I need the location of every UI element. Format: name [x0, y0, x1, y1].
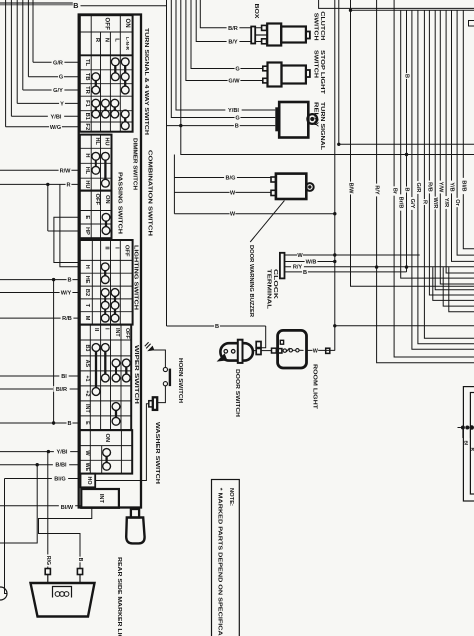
svg-text:B1: B1: [84, 113, 90, 121]
junction B/Bl: [36, 463, 39, 466]
wire G: [27, 0, 29, 77]
wire B right side: [406, 10, 408, 272]
wire Br: [394, 0, 474, 357]
wire vertical to y144 line: [338, 0, 340, 144]
label Br: [391, 186, 397, 195]
svg-text:E: E: [84, 215, 90, 219]
clutch switch barrel: [281, 27, 306, 43]
svg-text:Y/Bl: Y/Bl: [57, 450, 68, 456]
lighting switch contacts: [101, 263, 109, 271]
turn signal switch contacts F1 row: [92, 99, 100, 107]
turn signal relay mounting ear: [307, 114, 317, 124]
svg-text:B/Bl: B/Bl: [55, 463, 67, 469]
svg-text:R/W: R/W: [60, 168, 72, 174]
horn terminal cell HO: [81, 474, 96, 488]
wire B top horizontal: [81, 5, 167, 7]
svg-text:L: L: [113, 38, 119, 42]
svg-text:ON: ON: [124, 19, 130, 28]
clock terminal bar: [280, 253, 285, 279]
wire B feed vertical: [181, 0, 474, 155]
room light body: [278, 330, 307, 368]
label Y/B: [448, 181, 454, 194]
wire B from clock terminal: [285, 271, 407, 273]
svg-text:Bl/W: Bl/W: [61, 505, 74, 511]
svg-text:WIPER SWITCH: WIPER SWITCH: [133, 345, 139, 404]
wire R/W: [0, 169, 80, 171]
svg-text:B: B: [73, 1, 78, 10]
wire W/Y: [0, 292, 80, 294]
wire B/G to buzzer: [174, 177, 271, 179]
turn signal relay terminal bar: [275, 107, 279, 131]
svg-text:AS: AS: [84, 360, 90, 368]
door switch arrow: [217, 353, 228, 361]
svg-text:G/R: G/R: [415, 183, 421, 193]
door warning buzzer mounting ear: [306, 183, 314, 191]
svg-text:N: N: [103, 38, 109, 42]
rear side marker lamp terminal R/G: [45, 569, 50, 575]
turn signal switch contacts TB row: [92, 73, 100, 81]
svg-text:CLUTCH: CLUTCH: [319, 11, 325, 40]
rear side marker lamp housing: [31, 583, 95, 617]
stop light switch body: [268, 63, 282, 87]
svg-text:Y/Bl: Y/Bl: [51, 114, 62, 120]
svg-text:B: B: [303, 270, 307, 276]
wire Bl/R: [0, 388, 80, 390]
note box: [212, 480, 240, 636]
junction B net: [52, 278, 55, 281]
stop light switch terminals: [263, 66, 268, 71]
label Y/R: [443, 196, 449, 209]
svg-text:HL: HL: [94, 138, 100, 146]
wire R/G drop to side marker: [47, 452, 49, 569]
wire E to H loop: [54, 217, 80, 262]
junction Y/Bl: [47, 450, 50, 453]
svg-text:DOOR SWITCH: DOOR SWITCH: [234, 369, 240, 417]
wiper switch contacts: [92, 344, 100, 352]
wire G vertical to stop light switch: [191, 0, 263, 69]
svg-text:II: II: [104, 246, 110, 250]
svg-text:ON: ON: [104, 195, 110, 204]
svg-text:B3: B3: [84, 345, 90, 352]
wire Y/Bl to W: [0, 451, 80, 453]
svg-text:TERMINAL: TERMINAL: [266, 269, 272, 310]
junction R branch: [46, 183, 49, 186]
dimmer switch table grid: [80, 135, 112, 191]
label B right: [403, 187, 409, 193]
label R/G: [45, 554, 50, 566]
svg-text:B: B: [77, 558, 83, 562]
svg-text:W: W: [297, 253, 303, 259]
svg-text:G: G: [59, 75, 63, 81]
wire INT box to marker lamp B terminal: [39, 508, 92, 569]
wire W/G: [5, 0, 7, 127]
svg-text:R/B: R/B: [426, 182, 432, 192]
wire W net vertical: [334, 0, 336, 351]
svg-text:Y/R: Y/R: [443, 198, 449, 207]
wire G/W vertical to stop light switch: [186, 0, 263, 81]
door switch plunger: [238, 340, 243, 363]
svg-text:RELAY: RELAY: [312, 102, 318, 127]
stop light switch barrel: [282, 66, 306, 84]
svg-text:M: M: [84, 316, 90, 321]
right edge lamp box inner: [470, 393, 474, 495]
svg-text:DOOR WARNING BUZZER: DOOR WARNING BUZZER: [248, 245, 254, 318]
svg-text:Bl/G: Bl/G: [54, 477, 66, 483]
wire Bl/G: [5, 478, 81, 480]
svg-text:ON: ON: [104, 434, 110, 443]
svg-text:TB: TB: [84, 73, 90, 81]
svg-text:INT: INT: [84, 404, 90, 413]
svg-text:SWITCH: SWITCH: [312, 50, 318, 78]
svg-text:WE: WE: [84, 463, 90, 472]
svg-text:ROOM LIGHT: ROOM LIGHT: [311, 364, 317, 410]
svg-text:L-N-R: L-N-R: [124, 37, 130, 51]
svg-text:R: R: [66, 182, 70, 188]
label R right: [421, 199, 427, 205]
svg-text:Y/W: Y/W: [437, 182, 443, 193]
label B/Y: [227, 38, 240, 44]
lighting switch contact links: [104, 271, 106, 276]
lighting switch table grid: [80, 240, 133, 325]
label Br/B: [398, 194, 404, 210]
svg-text:B/W: B/W: [348, 183, 354, 195]
svg-text:W/R: W/R: [432, 198, 438, 209]
wire B/Bl to WE: [0, 464, 80, 466]
svg-text:H: H: [84, 265, 90, 269]
turn signal relay body: [279, 102, 308, 138]
svg-text:Or: Or: [454, 199, 460, 206]
dimmer switch contacts: [92, 152, 100, 160]
svg-text:B: B: [215, 324, 219, 330]
wire Bl: [0, 375, 80, 377]
wire B to E: [0, 422, 80, 424]
wire R/B: [0, 317, 80, 319]
svg-text:INT: INT: [98, 494, 104, 504]
svg-text:OFF: OFF: [123, 245, 129, 257]
wire long horizontal y144: [339, 143, 474, 145]
wire horn to HO: [95, 404, 149, 481]
clutch switch body: [267, 24, 281, 46]
label Or: [454, 198, 460, 207]
svg-text:R: R: [421, 200, 427, 204]
svg-text:* MARKED PARTS DEPEND ON SPEC: * MARKED PARTS DEPEND ON SPECIFICA: [216, 488, 222, 636]
door warning buzzer pointer line: [250, 201, 284, 242]
wire B/Y vertical to clutch switch: [196, 0, 261, 42]
svg-text:T: T: [84, 304, 90, 308]
wire G/R: [32, 0, 34, 62]
label Bl/B: [460, 178, 466, 194]
rear side marker lamp terminal B: [77, 569, 82, 575]
wire B/Bl drop to left edge: [0, 465, 37, 543]
junction B relay tap: [179, 124, 182, 127]
svg-text:+1: +1: [84, 375, 90, 381]
svg-text:Bl/B: Bl/B: [460, 180, 466, 191]
svg-text:INT: INT: [114, 328, 120, 337]
wire W/B from clock terminal: [285, 261, 335, 263]
svg-text:W/B: W/B: [306, 260, 317, 266]
wire R/Y from clock terminal: [285, 266, 474, 268]
svg-text:TL: TL: [84, 59, 90, 67]
wire Or: [457, 10, 474, 255]
wire top bus right corner: [319, 0, 474, 8]
svg-text:Br/B: Br/B: [398, 197, 404, 209]
wire G vertical to relay: [171, 0, 275, 118]
svg-text:OFF: OFF: [94, 194, 100, 206]
wire B branch to relay: [167, 125, 276, 127]
svg-text:HU: HU: [84, 180, 90, 188]
passing switch table grid: [80, 191, 112, 239]
svg-text:LIGHTING SWITCH: LIGHTING SWITCH: [133, 245, 139, 310]
horn switch ground symbol: [147, 346, 154, 352]
svg-text:R/Y: R/Y: [293, 265, 303, 271]
wire B/W: [351, 0, 474, 286]
svg-text:G: G: [235, 67, 239, 73]
svg-text:B: B: [67, 278, 71, 284]
svg-text:G/Y: G/Y: [409, 199, 415, 209]
wire stub for B/G and W: [173, 155, 175, 214]
svg-text:W: W: [230, 212, 236, 218]
svg-text:TURN SIGNAL & 4 WAY SWITCH: TURN SIGNAL & 4 WAY SWITCH: [143, 28, 149, 135]
svg-text:B: B: [404, 187, 410, 191]
svg-text:SWITCH: SWITCH: [312, 13, 318, 41]
label G/R right: [415, 181, 421, 194]
label G stop: [235, 65, 241, 71]
turn signal & 4-way switch table grid: [80, 15, 133, 132]
wire vertical at 59.9 to H row: [60, 184, 80, 266]
svg-text:HO: HO: [86, 476, 92, 484]
second marker lamp at left edge: [0, 587, 7, 600]
wire G/Y right: [412, 10, 474, 349]
wire Bl/B: [463, 10, 474, 249]
svg-text:E: E: [84, 421, 90, 425]
svg-text:Y: Y: [60, 101, 64, 107]
label R/B right: [426, 181, 432, 194]
door switch body: [220, 343, 253, 360]
label G relay: [235, 114, 241, 120]
svg-text:DIMMER SWITCH: DIMMER SWITCH: [132, 138, 138, 190]
wire B/R vertical to clutch switch: [200, 0, 261, 28]
svg-text:HE: HE: [84, 276, 90, 284]
room light edge tab: [278, 349, 282, 353]
passing switch contacts: [102, 213, 110, 221]
wire Bl/W: [0, 505, 81, 507]
wire door switch to room light: [253, 350, 257, 352]
stop light switch tip: [306, 70, 310, 77]
right edge lamp box outer: [463, 387, 474, 501]
svg-text:W: W: [230, 190, 236, 196]
wire W/R: [435, 10, 474, 289]
clutch switch terminals: [262, 25, 267, 30]
wire W net branch right: [335, 325, 474, 327]
svg-text:REAR SIDE MARKER LIGHT: REAR SIDE MARKER LIGHT: [116, 557, 122, 636]
label B/R: [227, 25, 240, 31]
svg-text:+2: +2: [84, 390, 90, 396]
label B right upper: [403, 73, 409, 79]
room light inner terminal square: [280, 340, 283, 344]
svg-text:F2: F2: [84, 123, 90, 130]
wire horn switch bottom: [157, 386, 165, 403]
connector plug neck: [131, 509, 139, 518]
clutch switch plunger: [251, 27, 255, 44]
horn switch contact bottom: [163, 382, 167, 386]
svg-text:B: B: [67, 421, 71, 427]
svg-text:W/Y: W/Y: [61, 291, 72, 297]
horn switch bar: [169, 369, 171, 387]
wire bus y10: [351, 9, 474, 11]
door switch contacts: [224, 350, 228, 354]
svg-text:B2: B2: [84, 289, 90, 296]
wiper switch contact links: [95, 351, 97, 387]
right edge bullet connectors: [461, 426, 465, 430]
turn signal switch contacts B1 row: [92, 110, 100, 118]
wire Y/Bl vertical to relay: [176, 0, 275, 110]
wire stub exit 312: [449, 267, 474, 312]
svg-text:Y/B: Y/B: [449, 182, 455, 191]
svg-text:CLOCK: CLOCK: [272, 269, 278, 300]
svg-text:WASHER SWITCH: WASHER SWITCH: [154, 422, 160, 484]
wire W to buzzer: [174, 191, 271, 193]
wire R/B right: [429, 10, 474, 295]
rear side marker lamp bulb: [53, 587, 72, 598]
turn signal switch contact F2 row: [121, 122, 129, 130]
wire W from clock terminal: [285, 254, 420, 256]
wire Y: [16, 0, 18, 103]
wire G/R right: [418, 10, 474, 343]
wire stub exit 300: [433, 267, 474, 300]
clutch switch tip: [306, 32, 310, 39]
turn signal switch contact links: [114, 66, 116, 73]
wire R right: [424, 10, 474, 338]
svg-text:B: B: [235, 124, 239, 130]
label G/W: [228, 77, 241, 83]
wire G/Y: [22, 0, 24, 90]
wire Br/B: [401, 10, 474, 278]
room light inline connector square: [326, 348, 330, 353]
svg-text:G: G: [235, 116, 239, 122]
svg-text:R/G: R/G: [45, 556, 51, 565]
svg-text:G/R: G/R: [53, 60, 63, 66]
label Y/Bl relay: [225, 107, 241, 113]
wire Y/Bl: [10, 0, 12, 116]
passing switch contact link: [105, 221, 107, 226]
svg-text:HP: HP: [84, 227, 90, 235]
horn switch contact top: [163, 367, 167, 371]
svg-text:OFF: OFF: [104, 18, 110, 31]
turn signal switch contacts TL row: [111, 58, 119, 66]
gray bus bar top left: [0, 2, 73, 5]
svg-text:Br: Br: [392, 188, 398, 195]
svg-text:B/G: B/G: [226, 176, 236, 182]
wiper switch table grid: [80, 325, 131, 431]
svg-text:R/B: R/B: [62, 316, 72, 322]
washer switch contacts: [103, 449, 111, 457]
door warning buzzer body: [276, 174, 306, 199]
wire B net vertical: [53, 280, 55, 425]
svg-text:W: W: [313, 348, 319, 354]
combination switch outer box: [79, 15, 141, 508]
horn switch connector: [153, 397, 157, 410]
door switch connector: [256, 342, 261, 348]
wire Bl/G drop to side marker: [5, 479, 8, 594]
svg-text:G/Y: G/Y: [53, 88, 63, 94]
svg-text:G/W: G/W: [228, 79, 240, 85]
washer switch contact link: [105, 456, 107, 462]
label B/W: [347, 182, 353, 195]
svg-text:BOX: BOX: [253, 4, 259, 19]
svg-text:STOP LIGHT: STOP LIGHT: [319, 50, 325, 95]
svg-text:HU: HU: [103, 138, 109, 146]
door warning buzzer terminals: [271, 177, 276, 182]
label G/Y right: [409, 197, 415, 210]
svg-text:R: R: [469, 448, 474, 452]
dimmer switch contact links: [95, 160, 97, 166]
wire B to door switch: [167, 325, 266, 327]
washer switch table grid: [80, 430, 132, 474]
wire elbow top right edge: [469, 21, 474, 27]
label B marker: [77, 557, 82, 563]
svg-text:TURN SIGNAL: TURN SIGNAL: [319, 102, 325, 151]
room light contacts and lever: [283, 349, 286, 352]
svg-text:Bl: Bl: [463, 441, 469, 446]
svg-text:B/R: B/R: [228, 26, 238, 32]
intermittent unit box INT: [81, 489, 119, 508]
svg-text:R/Y: R/Y: [374, 185, 380, 195]
wire stub exit 306: [443, 267, 474, 306]
wire horn switch top: [154, 350, 166, 367]
turn signal switch contacts TR row: [92, 86, 100, 94]
wire R: [0, 183, 80, 185]
svg-text:TR: TR: [84, 86, 90, 95]
label R/Y: [374, 184, 380, 197]
wire W to room light feed: [174, 213, 334, 215]
svg-text:HORN SWITCH: HORN SWITCH: [177, 358, 183, 403]
svg-text:Y/Bl: Y/Bl: [228, 108, 239, 114]
svg-text:Bl: Bl: [61, 374, 67, 380]
svg-text:H: H: [84, 153, 90, 157]
wire R to HP: [47, 184, 49, 231]
svg-text:W/G: W/G: [50, 125, 61, 131]
svg-text:B/Y: B/Y: [228, 40, 238, 46]
svg-text:B: B: [404, 74, 410, 78]
wire B vertical to door switch: [166, 0, 168, 326]
label Y/W: [437, 181, 443, 194]
label B relay: [234, 123, 240, 129]
svg-text:W: W: [84, 450, 90, 456]
svg-text:COMBINATION SWITCH: COMBINATION SWITCH: [146, 150, 152, 236]
wire R/Y vertical: [377, 0, 474, 363]
svg-text:NOTE:: NOTE:: [228, 488, 234, 506]
wire Y/B: [452, 10, 474, 261]
door switch inline connector square: [272, 348, 277, 353]
wire B to HE: [0, 279, 80, 281]
connector plug body: [126, 518, 144, 544]
svg-text:PASSING SWITCH: PASSING SWITCH: [117, 172, 123, 234]
label W/R: [432, 197, 438, 210]
wire Y/W: [440, 10, 474, 284]
wire Y/R: [446, 10, 474, 273]
svg-text:Bl/R: Bl/R: [56, 387, 67, 393]
svg-text:HL: HL: [84, 167, 90, 175]
svg-text:OFF: OFF: [124, 328, 130, 339]
svg-text:F1: F1: [84, 100, 90, 108]
svg-text:II: II: [93, 328, 99, 332]
wire W from room light: [307, 349, 335, 351]
